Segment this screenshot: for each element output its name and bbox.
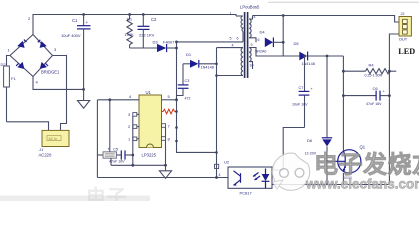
- wire aux top row: [217, 47, 244, 49]
- resistor R4: [342, 63, 396, 78]
- wire top rail: [33, 15, 236, 35]
- wire bridge bottom to DC-: [33, 77, 84, 90]
- wire aux return vertical: [216, 48, 218, 178]
- svg-text:电子: 电子: [86, 186, 127, 201]
- node junctions on drain vertical: [175, 126, 178, 129]
- svg-text:www.elecfans.com: www.elecfans.com: [305, 177, 419, 192]
- wire drain vertical and to opto: [177, 42, 217, 152]
- pin 1: [128, 136, 139, 141]
- wire snubber row: [130, 47, 157, 49]
- wire bottom mid: [111, 164, 166, 166]
- svg-text:6: 6: [237, 37, 239, 41]
- wire primary bottom row: [177, 41, 244, 43]
- svg-text:D4: D4: [260, 30, 266, 35]
- svg-text:472: 472: [185, 97, 191, 101]
- aux winding: [241, 48, 243, 76]
- svg-text:1N4148: 1N4148: [201, 66, 214, 70]
- optocoupler U2 PC817: [224, 160, 272, 196]
- svg-text:100K: 100K: [125, 32, 135, 37]
- svg-text:AC220: AC220: [39, 153, 52, 158]
- svg-text:PC817: PC817: [240, 191, 253, 196]
- diode D4: [255, 30, 283, 54]
- pin 8: [162, 137, 171, 142]
- svg-text:5: 5: [230, 37, 232, 41]
- pin 5 row: [162, 99, 177, 101]
- svg-text:4: 4: [232, 44, 234, 48]
- wire bottom rail: [97, 177, 228, 179]
- pin 3: [128, 112, 139, 117]
- svg-text:9: 9: [251, 43, 253, 47]
- transistor Q1: [326, 56, 366, 185]
- svg-text:6: 6: [258, 38, 260, 42]
- svg-text:R4: R4: [369, 63, 375, 68]
- wire pins123 vertical: [132, 116, 134, 165]
- svg-text:D3: D3: [153, 40, 159, 45]
- svg-text:J2: J2: [401, 12, 405, 16]
- ground earth symbol left: [78, 89, 90, 108]
- wire output rail: [253, 16, 400, 23]
- capacitor C3: [177, 64, 191, 101]
- svg-text:C7: C7: [299, 86, 304, 90]
- node DC- junction: [82, 88, 85, 91]
- svg-text:F1: F1: [11, 76, 16, 81]
- svg-text:C2: C2: [151, 17, 157, 22]
- faint top border line: [268, 1, 419, 3]
- pin 7: [162, 124, 171, 129]
- svg-text:电子发烧友: 电子发烧友: [314, 151, 419, 179]
- svg-text:D6: D6: [307, 138, 313, 143]
- connector J2 LED: [398, 12, 415, 56]
- svg-text:D2: D2: [1, 62, 7, 67]
- svg-text:Q1: Q1: [360, 145, 366, 150]
- svg-text:LPouBos5: LPouBos5: [240, 5, 260, 10]
- svg-text:LP3225: LP3225: [142, 153, 157, 158]
- resistor R2 red zigzag pin6: [162, 109, 178, 114]
- svg-text:C5: C5: [113, 147, 119, 152]
- svg-text:47uF 16V: 47uF 16V: [366, 102, 382, 106]
- diode arm top-left: [17, 41, 24, 48]
- svg-text:0.25-1.00R: 0.25-1.00R: [365, 73, 383, 77]
- diode D5: [283, 41, 343, 66]
- wire return bottom right: [272, 184, 389, 186]
- svg-text:LED: LED: [398, 47, 415, 56]
- diode D1 1N4148: [183, 52, 217, 70]
- svg-text:AC in: AC in: [49, 137, 57, 141]
- wire rail B: [389, 34, 399, 185]
- svg-text:222 1KV: 222 1KV: [139, 32, 155, 37]
- faint bottom-left gray band: [0, 196, 150, 202]
- svg-text:1N4148: 1N4148: [302, 62, 315, 66]
- svg-text:C3: C3: [185, 79, 190, 83]
- diode D3 F4007: [153, 40, 177, 53]
- capacitor C5 and input comp: [97, 147, 134, 164]
- svg-text:4: 4: [219, 173, 221, 177]
- pin3 box on aux vertical: [215, 164, 219, 168]
- secondary top winding: [249, 19, 251, 38]
- capacitor C6: [342, 86, 389, 106]
- capacitor C2: [138, 13, 158, 48]
- wire AC right pin from bridge right vertex: [53, 56, 67, 131]
- resistor R1: [125, 13, 135, 48]
- led inside: [265, 169, 267, 175]
- svg-text:10uF 16V: 10uF 16V: [292, 103, 308, 107]
- svg-text:10: 10: [250, 64, 254, 68]
- svg-text:BRIDGE1: BRIDGE1: [41, 70, 60, 75]
- watermark logo: [272, 153, 309, 190]
- svg-text:10uF 400V: 10uF 400V: [61, 33, 81, 38]
- light arrows: [253, 173, 259, 177]
- primary winding: [236, 15, 243, 17]
- connector J1 AC220: [39, 130, 70, 157]
- core: [244, 12, 246, 78]
- diode arm bottom-right: [40, 62, 47, 69]
- capacitor C1: [61, 13, 91, 89]
- diode arm bottom-left: [17, 62, 24, 69]
- pin 2: [128, 124, 139, 129]
- svg-text:+: +: [86, 20, 89, 25]
- wire AC left pin: [7, 122, 49, 131]
- photo transistor: [240, 173, 242, 183]
- svg-text:F4007: F4007: [163, 40, 175, 45]
- svg-text:D1: D1: [186, 52, 192, 57]
- svg-text:SR2A0: SR2A0: [255, 50, 266, 54]
- svg-text:R1: R1: [127, 17, 133, 22]
- svg-text:1: 1: [230, 12, 232, 16]
- svg-text:U2: U2: [224, 160, 230, 165]
- wire VCC feed vertical: [109, 101, 111, 152]
- zener D6: [305, 55, 333, 185]
- svg-text:C6: C6: [373, 86, 379, 91]
- IC U1 LP3225: [139, 90, 162, 158]
- diode arm top-right: [40, 41, 47, 48]
- wire C7 to opto pin1: [272, 128, 305, 171]
- fuse F1 / D2: [1, 56, 17, 122]
- svg-text:C1: C1: [72, 18, 78, 23]
- svg-text:U1: U1: [146, 90, 152, 95]
- wire pins78 vertical: [165, 127, 167, 165]
- wire D4 riser: [282, 16, 284, 57]
- secondary bottom winding: [249, 48, 251, 62]
- bridge rectifier BRIDGE1: [8, 35, 61, 85]
- svg-text:OUT: OUT: [399, 37, 408, 42]
- svg-text:D5: D5: [294, 41, 300, 46]
- ground symbol mid: [159, 165, 171, 178]
- capacitor C7: [292, 55, 313, 128]
- transformer T1: [217, 5, 284, 79]
- wire left rail: [96, 100, 98, 178]
- wire pin4 row: [97, 99, 139, 101]
